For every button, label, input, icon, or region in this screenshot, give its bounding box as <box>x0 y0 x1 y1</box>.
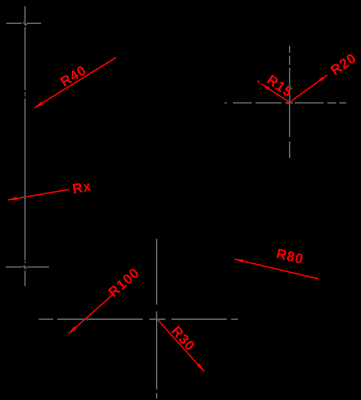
dimension R100 arrowhead <box>69 326 77 333</box>
centerline bottom-middle vertical <box>156 239 158 399</box>
dimension R80 arrowhead <box>234 259 243 263</box>
centerline top-right vertical <box>289 46 291 158</box>
dimension Rx leader <box>8 189 70 200</box>
centerline top-right horizontal <box>225 102 347 104</box>
blend pixel R15 text over top-right centerline <box>289 86 291 89</box>
dimension R40 leader <box>34 58 116 108</box>
center mark bottom-left ticks <box>6 266 49 269</box>
dimension R20 arrowhead <box>319 75 327 82</box>
dimension R30 leader <box>158 320 205 372</box>
dimension Rx arrowhead <box>8 197 17 201</box>
centerline left vertical <box>24 6 26 286</box>
center mark top-left ticks <box>6 22 41 26</box>
blend pixels R15-R20 over top-right horizontal centerline <box>287 102 289 104</box>
dimension R15 tail dot <box>257 80 259 82</box>
dimension R100 leader <box>69 294 114 334</box>
centerline bottom-middle horizontal <box>39 318 238 320</box>
dimension R30 arrowhead <box>197 364 204 372</box>
blend pixel R30 at bottom cross center <box>157 319 159 321</box>
blend pixels R100 over bottom centerline <box>83 319 85 321</box>
dimension R15 arrowhead <box>262 84 271 91</box>
dimension R15 leader <box>262 84 290 102</box>
dimension R40 arrowhead <box>34 102 43 108</box>
blend pixel Rx over left centerline <box>24 196 26 198</box>
svg-text:Rx: Rx <box>71 178 93 197</box>
dimension R80 leader <box>234 259 318 279</box>
dimension R20 leader <box>290 75 328 102</box>
